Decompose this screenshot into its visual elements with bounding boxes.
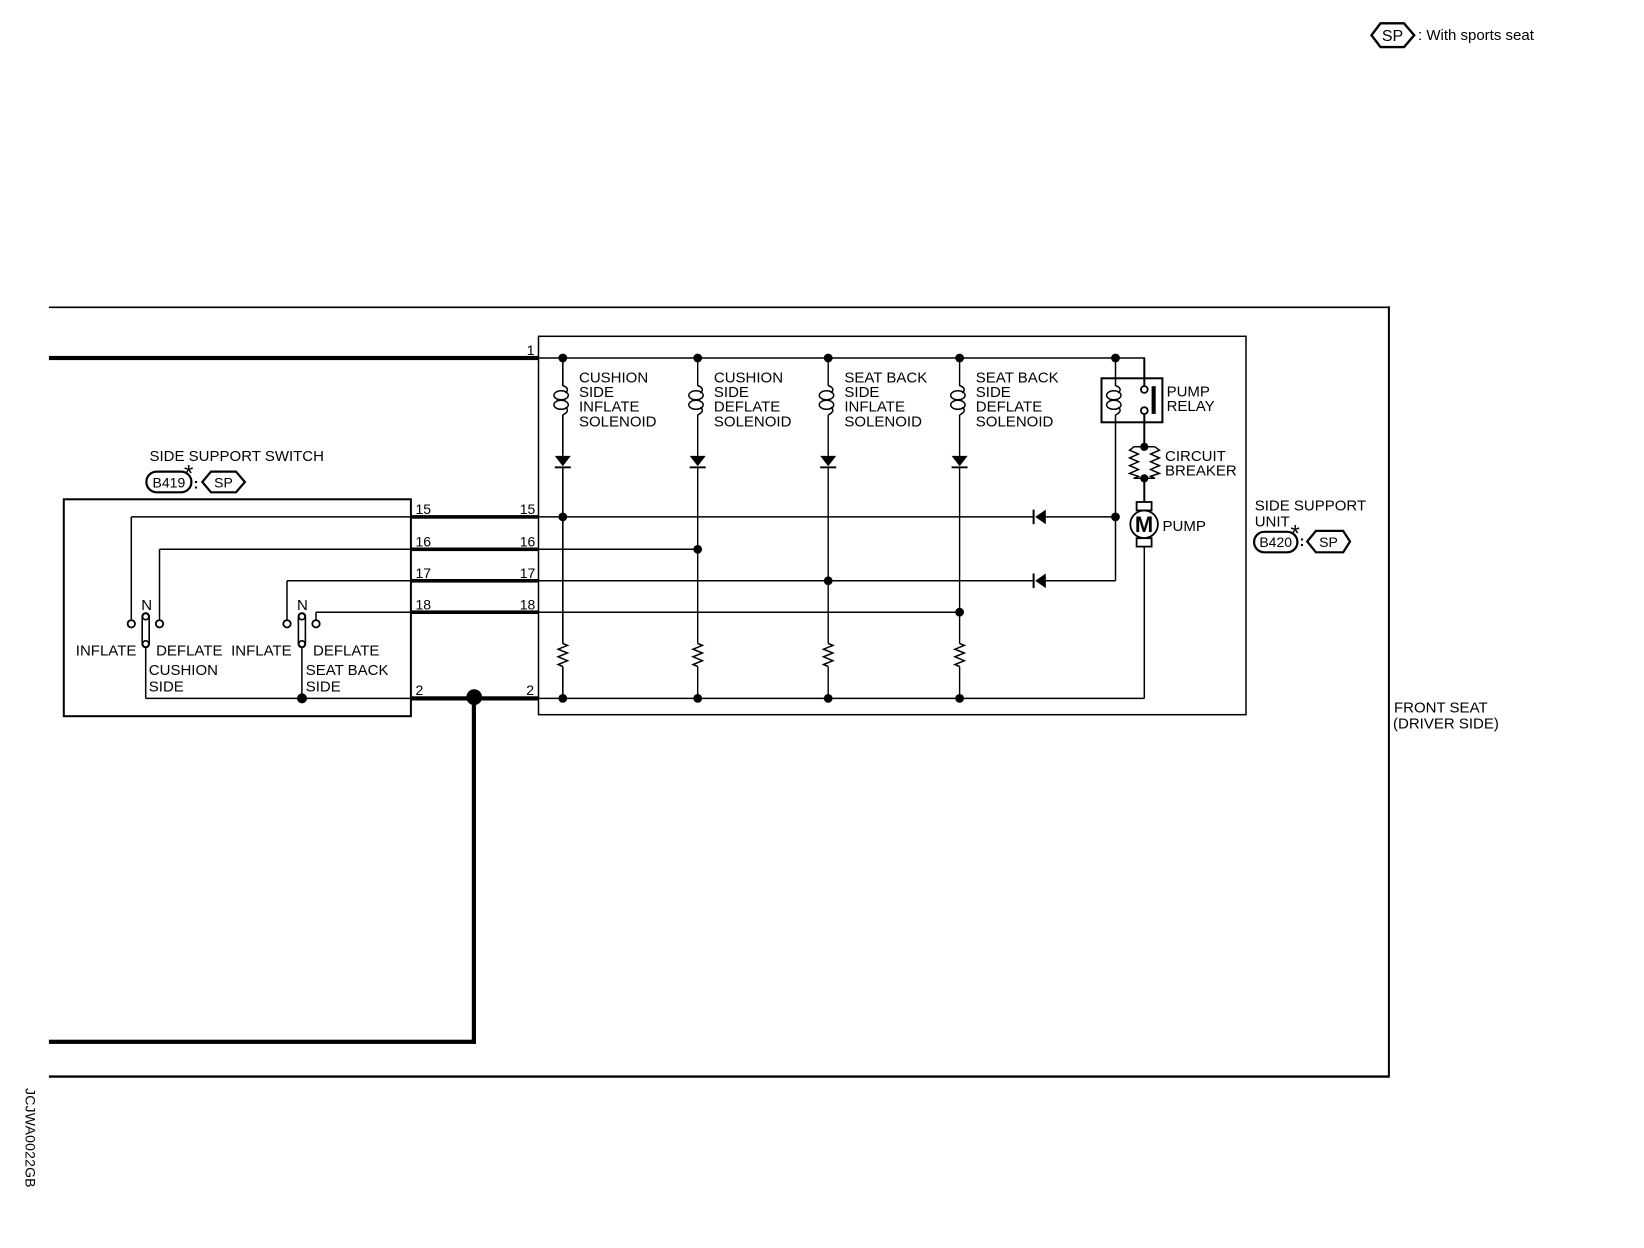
svg-text:2: 2 xyxy=(526,682,534,698)
node branch1-bottom bus xyxy=(558,694,567,703)
label INFLATE cushion xyxy=(76,643,137,660)
svg-text:M: M xyxy=(1135,512,1153,537)
svg-text:15: 15 xyxy=(520,501,536,517)
wire 18 stub thick xyxy=(411,610,539,614)
legend SP hexagon xyxy=(1372,23,1415,47)
svg-text:RELAY: RELAY xyxy=(1167,398,1215,415)
solenoid L3 seat back side inflate: branch wire xyxy=(827,358,829,698)
solenoid L2 cushion side deflate: branch wire xyxy=(697,358,699,698)
node bus-branch4 xyxy=(955,354,964,363)
svg-text:18: 18 xyxy=(520,597,536,613)
wire 15 inside unit xyxy=(539,516,1116,518)
circuit breaker CB xyxy=(1130,447,1160,479)
svg-text:: With sports seat: : With sports seat xyxy=(1418,27,1535,44)
solenoid L4 coil xyxy=(951,386,965,416)
svg-text:18: 18 xyxy=(416,597,432,613)
svg-text:INFLATE: INFLATE xyxy=(231,643,292,660)
svg-text:15: 15 xyxy=(416,501,432,517)
wire 16 stub thick xyxy=(411,548,539,552)
svg-text:N: N xyxy=(141,597,152,614)
resistor R4 xyxy=(955,644,964,667)
pin 16 labels xyxy=(416,534,536,550)
label solenoid L2 xyxy=(714,370,792,431)
wire bottom bus inside unit xyxy=(539,697,1145,699)
diode D3 (down) xyxy=(820,456,836,468)
node bus-branch1 xyxy=(558,354,567,363)
node bus-branch2 xyxy=(693,354,702,363)
svg-text:B420: B420 xyxy=(1259,534,1292,550)
legend text: With sports seat xyxy=(1418,27,1535,44)
svg-text:SP: SP xyxy=(1382,28,1403,45)
wire common to box edge xyxy=(302,697,411,699)
node branch2-bottom bus xyxy=(693,694,702,703)
connector SP hexagon (unit) xyxy=(1307,531,1350,552)
node junction on wire 2 xyxy=(466,689,482,705)
wire thick bottom horizontal xyxy=(49,1040,476,1044)
motor M1 pump xyxy=(1130,502,1158,547)
asterisk for B420 xyxy=(1291,521,1300,548)
label FRONT SEAT (DRIVER SIDE) xyxy=(1393,700,1499,733)
wire pump to bottom bus xyxy=(1143,547,1145,699)
solenoid L1 cushion side inflate: branch wire xyxy=(562,358,564,698)
svg-text:SIDE: SIDE xyxy=(306,678,341,695)
diode D4 (down) xyxy=(952,456,968,468)
svg-text::: : xyxy=(1300,533,1305,550)
switch SW1 cushion side lever xyxy=(141,597,152,648)
wire 18 inside unit xyxy=(539,611,960,613)
node coil line - wire15 xyxy=(1111,513,1120,522)
svg-text:B419: B419 xyxy=(153,474,186,490)
svg-text:SIDE SUPPORT SWITCH: SIDE SUPPORT SWITCH xyxy=(150,448,324,465)
resistor R3 xyxy=(824,644,833,667)
label SIDE SUPPORT SWITCH xyxy=(150,448,324,465)
wire 16 inside unit xyxy=(539,548,698,550)
svg-text:16: 16 xyxy=(520,534,536,550)
svg-text:JCJWA0022GB: JCJWA0022GB xyxy=(23,1088,39,1188)
colon separator xyxy=(194,476,199,493)
node breaker top xyxy=(1140,443,1148,451)
contact DEFLATE (seat back) xyxy=(312,620,319,627)
svg-text:SOLENOID: SOLENOID xyxy=(579,413,657,430)
contact INFLATE (cushion) xyxy=(128,620,135,627)
label DEFLATE seat back xyxy=(313,643,379,660)
svg-text:SOLENOID: SOLENOID xyxy=(714,413,792,430)
connector B419 capsule xyxy=(146,472,191,493)
node switch common junction xyxy=(297,693,307,703)
svg-text:BREAKER: BREAKER xyxy=(1165,463,1237,480)
wire relay coil line vertical xyxy=(1115,358,1117,581)
node breaker bottom xyxy=(1140,474,1148,482)
svg-text:*: * xyxy=(1291,521,1300,548)
solenoid L2 coil xyxy=(689,386,703,416)
svg-text:SIDE SUPPORT: SIDE SUPPORT xyxy=(1255,497,1366,514)
svg-text:FRONT SEAT: FRONT SEAT xyxy=(1394,700,1488,717)
svg-text:N: N xyxy=(297,597,308,614)
wire SW1 common to ground bus xyxy=(146,647,302,698)
svg-text:SP: SP xyxy=(214,474,233,490)
node branch4-wire18 xyxy=(955,608,964,617)
outer frame FRONT SEAT (open left side) xyxy=(49,306,1389,1077)
contact INFLATE (seat back) xyxy=(283,620,290,627)
svg-text:17: 17 xyxy=(520,565,536,581)
pin 1 label xyxy=(527,342,535,358)
svg-text:CUSHION: CUSHION xyxy=(149,662,218,679)
wire SW2 common down xyxy=(301,647,303,698)
relay K1 contact xyxy=(1141,358,1156,447)
svg-text:SOLENOID: SOLENOID xyxy=(976,413,1054,430)
diode D1 (down) xyxy=(555,456,571,468)
solenoid L4 seat back side deflate: branch wire xyxy=(959,358,961,698)
wire 17 stub thick xyxy=(411,579,539,583)
solenoid L1 coil xyxy=(554,386,568,416)
svg-text::: : xyxy=(194,476,199,493)
svg-text:SP: SP xyxy=(1319,534,1338,550)
svg-text:16: 16 xyxy=(416,534,432,550)
asterisk for B419 xyxy=(184,461,193,488)
node bus-branch3 xyxy=(824,354,833,363)
svg-text:*: * xyxy=(184,461,193,488)
resistor R2 xyxy=(693,644,702,667)
svg-text:PUMP: PUMP xyxy=(1163,518,1206,535)
label SIDE SUPPORT UNIT xyxy=(1255,497,1366,530)
svg-text:SOLENOID: SOLENOID xyxy=(844,413,922,430)
wire 17 inside unit xyxy=(539,580,1116,582)
node branch3-wire17 xyxy=(824,576,833,585)
contact DEFLATE (cushion) xyxy=(156,620,163,627)
svg-text:SIDE: SIDE xyxy=(149,678,184,695)
svg-text:17: 17 xyxy=(416,565,432,581)
label solenoid L1 xyxy=(579,370,657,431)
label INFLATE seat back xyxy=(231,643,292,660)
wire top bus inside unit xyxy=(539,358,1145,386)
label solenoid L4 xyxy=(976,370,1059,431)
relay K1 box xyxy=(1102,378,1163,422)
label SEAT BACK SIDE xyxy=(306,662,389,696)
pin 17 labels xyxy=(416,565,536,581)
label CIRCUIT BREAKER xyxy=(1165,448,1237,480)
svg-text:SEAT BACK: SEAT BACK xyxy=(306,662,389,679)
svg-text:DEFLATE: DEFLATE xyxy=(156,643,222,660)
wire 18 inside switch box xyxy=(316,612,411,620)
solenoid L3 coil xyxy=(819,386,833,416)
colon separator xyxy=(1300,533,1305,550)
label solenoid L3 xyxy=(844,370,927,431)
diode D6 on wire 17 (points left) xyxy=(1033,574,1046,589)
wire pin1 thick feed xyxy=(49,356,539,360)
connector SP hexagon (switch) xyxy=(202,472,245,493)
svg-text:DEFLATE: DEFLATE xyxy=(313,643,379,660)
svg-text:(DRIVER SIDE): (DRIVER SIDE) xyxy=(1393,716,1499,733)
wire 15 inside switch box xyxy=(131,517,411,620)
svg-text:1: 1 xyxy=(527,342,535,358)
label DEFLATE cushion xyxy=(156,643,222,660)
node branch2-wire16 xyxy=(693,545,702,554)
box SIDE SUPPORT SWITCH xyxy=(64,499,411,716)
wire 15 stub thick xyxy=(411,515,539,519)
svg-text:UNIT: UNIT xyxy=(1255,514,1290,531)
wire 16 inside switch box xyxy=(160,549,411,620)
wire 17 inside switch box xyxy=(287,581,411,620)
label CUSHION SIDE xyxy=(149,662,218,696)
label PUMP RELAY xyxy=(1167,383,1215,415)
drawing code JCJWA0022GB (rotated) xyxy=(23,1088,39,1188)
diode D2 (down) xyxy=(690,456,706,468)
node branch1-wire15 xyxy=(558,513,567,522)
connector B420 capsule xyxy=(1254,532,1297,553)
pin 2 labels xyxy=(416,682,535,698)
svg-text:INFLATE: INFLATE xyxy=(76,643,137,660)
switch SW2 seat back side lever xyxy=(297,597,308,648)
diode D5 on wire 15 (points left) xyxy=(1033,510,1046,525)
node branch4-bottom bus xyxy=(955,694,964,703)
node bus-relay coil xyxy=(1111,354,1120,363)
label PUMP xyxy=(1163,518,1206,535)
relay K1 coil xyxy=(1107,386,1121,416)
pin 18 labels xyxy=(416,597,536,613)
pin 15 labels xyxy=(416,501,536,517)
wire thick vertical from wire2 junction down xyxy=(472,698,476,1043)
svg-text:2: 2 xyxy=(416,682,424,698)
wire 2 stub thick xyxy=(411,696,539,700)
node branch3-bottom bus xyxy=(824,694,833,703)
wire breaker to pump xyxy=(1143,478,1145,502)
resistor R1 xyxy=(558,644,567,667)
box SIDE SUPPORT UNIT xyxy=(539,336,1247,714)
